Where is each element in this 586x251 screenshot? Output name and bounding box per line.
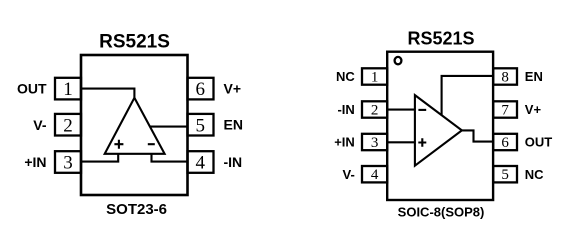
svg-text:OUT: OUT [17, 81, 47, 97]
svg-text:RS521S: RS521S [407, 29, 474, 49]
svg-text:1: 1 [63, 79, 73, 100]
svg-text:-IN: -IN [224, 154, 243, 170]
svg-text:2: 2 [371, 102, 379, 118]
svg-text:V-: V- [33, 117, 47, 133]
svg-text:3: 3 [371, 135, 379, 151]
svg-text:EN: EN [525, 69, 543, 84]
svg-text:SOIC-8(SOP8): SOIC-8(SOP8) [398, 204, 485, 219]
svg-text:6: 6 [501, 135, 509, 151]
svg-text:3: 3 [63, 153, 73, 174]
svg-text:+IN: +IN [334, 135, 355, 150]
svg-text:V-: V- [343, 167, 355, 182]
svg-text:OUT: OUT [525, 135, 553, 150]
svg-text:5: 5 [501, 167, 509, 183]
svg-text:V+: V+ [525, 102, 542, 117]
svg-text:V+: V+ [224, 81, 242, 97]
svg-text:+IN: +IN [24, 154, 46, 170]
svg-text:7: 7 [501, 102, 509, 118]
svg-text:5: 5 [196, 115, 206, 136]
svg-text:2: 2 [63, 115, 73, 136]
svg-text:-IN: -IN [337, 102, 354, 117]
svg-text:RS521S: RS521S [99, 31, 170, 52]
svg-text:EN: EN [224, 117, 243, 133]
svg-text:8: 8 [501, 69, 509, 85]
svg-text:SOT23-6: SOT23-6 [106, 201, 167, 218]
svg-text:6: 6 [196, 79, 206, 100]
svg-text:4: 4 [371, 167, 379, 183]
svg-text:1: 1 [371, 69, 379, 85]
svg-text:NC: NC [525, 167, 544, 182]
svg-text:NC: NC [336, 69, 355, 84]
svg-text:4: 4 [196, 153, 206, 174]
